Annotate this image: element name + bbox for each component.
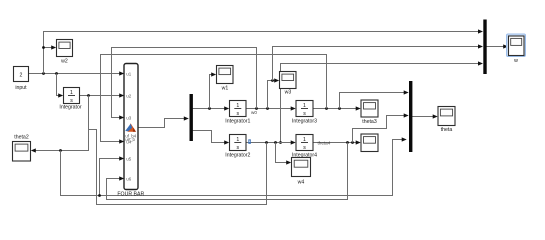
- Integrator4: [292, 135, 317, 159]
- svg-text:w2: w2: [61, 59, 68, 65]
- svg-text:Integrator: Integrator: [59, 105, 81, 111]
- scope w3: [280, 72, 297, 96]
- wire: Integrator4 out theta4 to scope: [313, 140, 361, 144]
- FOUR BAR subsystem: [117, 64, 144, 198]
- svg-text:w3: w3: [285, 90, 292, 96]
- scope w2: [57, 40, 73, 65]
- wire: riser to scope w1: [210, 72, 217, 108]
- svg-text:s: s: [303, 111, 306, 117]
- wire: theta2 bottom feedback to theta mux in3: [61, 137, 407, 195]
- wire: const input to u1: [29, 71, 125, 75]
- svg-text:s: s: [70, 98, 73, 104]
- wire: theta4 to theta mux in2: [353, 113, 409, 142]
- wire: theta2 riser to u5: [98, 156, 124, 197]
- signal logging badge: [248, 139, 251, 143]
- wire: Integrator1 out w0 to Integrator3: [246, 106, 296, 110]
- svg-text:theta: theta: [441, 127, 453, 133]
- svg-text:w1: w1: [222, 86, 229, 92]
- svg-text:s: s: [237, 145, 240, 151]
- wire: theta2 down-left to scope theta2: [31, 96, 89, 153]
- wire: demux out2 to Integrator2: [192, 131, 229, 145]
- Integrator1: [225, 101, 250, 125]
- wire: omega2 top feedback to w mux in1: [44, 29, 484, 73]
- scope theta: [438, 107, 455, 134]
- wire: w mux out to scope w: [487, 44, 509, 48]
- svg-text:w0: w0: [251, 110, 257, 115]
- theta mux bar: [409, 81, 412, 152]
- Integrator2: [225, 135, 250, 159]
- wire: w0 feedback to u3: [112, 48, 257, 120]
- svg-text:2: 2: [20, 73, 23, 79]
- svg-text:Integrator1: Integrator1: [225, 119, 250, 125]
- wire: w0 riser to scope w3: [268, 78, 280, 108]
- scope w1: [217, 66, 234, 92]
- wire: FOUR BAR output to demux: [138, 116, 189, 127]
- svg-text:Integrator3: Integrator3: [292, 119, 317, 125]
- wire: w3 signal to w mux in2: [273, 44, 484, 80]
- svg-text:u3: u3: [126, 115, 131, 120]
- wire: w4 bottom feedback long loop: [89, 130, 267, 205]
- svg-text:s: s: [303, 145, 306, 151]
- constant block 2 (input): [14, 67, 29, 92]
- wire: branch down to Integrator: [57, 74, 64, 98]
- svg-text:w: w: [514, 58, 518, 64]
- Integrator block: [59, 88, 81, 111]
- wire: Integrator2 out to Integrator4: [246, 140, 296, 144]
- svg-text:u5: u5: [126, 156, 131, 161]
- scope theta2 (flipped, label above): [13, 135, 31, 162]
- wire: theta mux out to scope theta: [412, 114, 438, 118]
- Integrator3: [292, 101, 317, 125]
- wire: theta4 bottom feedback to u6: [107, 143, 348, 200]
- wire: branch to scope w4: [276, 143, 292, 165]
- svg-text:w4: w4: [298, 180, 305, 186]
- wire: Integrator out to u2: [80, 93, 125, 97]
- MATLAB fcn icon: [125, 123, 136, 132]
- demux bar: [190, 94, 193, 141]
- svg-text:theta3: theta3: [362, 119, 377, 125]
- svg-text:u1: u1: [126, 71, 131, 76]
- svg-text:theta4: theta4: [318, 140, 331, 145]
- wire: branch to scope w2: [42, 45, 56, 49]
- scope theta3: [361, 100, 378, 125]
- wire: theta3 feedback to u4: [101, 55, 327, 144]
- wire: demux out1 to Integrator1: [192, 106, 229, 110]
- wire: w4 signal up to w mux in3 (passes behind scope w3): [279, 61, 483, 144]
- wire: theta3 to theta mux in1: [340, 90, 409, 108]
- svg-text:Integrator2: Integrator2: [225, 153, 250, 159]
- wire: Integrator3 out to scope theta3: [313, 106, 361, 110]
- svg-text:ue_b: ue_b: [125, 137, 135, 142]
- scope w4: [292, 158, 311, 186]
- svg-text:s: s: [237, 111, 240, 117]
- svg-text:theta2: theta2: [14, 135, 29, 141]
- svg-text:input: input: [15, 85, 27, 91]
- svg-text:u6: u6: [126, 176, 131, 181]
- scope theta4 (unlabeled): [361, 134, 378, 152]
- svg-text:FOUR BAR: FOUR BAR: [117, 192, 144, 198]
- scope w (selected, blue halo): [507, 34, 526, 64]
- w mux bar: [483, 20, 486, 75]
- svg-text:u2: u2: [126, 93, 131, 98]
